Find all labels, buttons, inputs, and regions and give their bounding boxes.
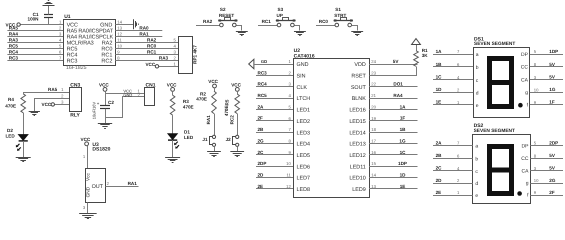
wire J2 to ground (237, 146, 239, 152)
svg-text:RA3: RA3 (159, 55, 169, 60)
svg-text:LED2: LED2 (297, 119, 311, 125)
wire net 1B to DS1 pin 6 (433, 66, 473, 68)
connector CN3 box (70, 88, 82, 112)
svg-text:RSET: RSET (351, 73, 366, 79)
svg-text:CLK: CLK (297, 85, 308, 91)
svg-text:RA1: RA1 (128, 181, 138, 186)
wire net 2F at DS2 pin 9 (530, 195, 563, 197)
svg-text:SOUT: SOUT (351, 85, 367, 91)
svg-text:GND: GND (86, 186, 91, 197)
svg-text:GD: GD (261, 59, 267, 64)
wire CN1 pin2 GND (106, 97, 145, 118)
svg-text:17: 17 (371, 139, 376, 144)
wire net 1C to DS1 pin 4 (433, 79, 473, 81)
svg-text:2A: 2A (436, 141, 443, 146)
display DS1 SEVEN SEGMENT box (474, 48, 530, 118)
svg-text:1A: 1A (436, 49, 443, 54)
wire VCC to U3 pin 1 (87, 146, 89, 169)
svg-text:g: g (525, 90, 528, 96)
svg-text:12: 12 (286, 184, 291, 189)
svg-text:2G: 2G (258, 138, 265, 143)
wire net 1B at U2 pin 18 (369, 132, 418, 134)
wire VCC to RP1 pin 1 (159, 66, 179, 68)
svg-text:LED11: LED11 (350, 164, 366, 170)
wire net RC0 to RP1 pin 4 (115, 48, 179, 50)
svg-text:C2: C2 (108, 100, 114, 105)
wire S2 to ground (237, 26, 242, 31)
svg-text:2A: 2A (258, 104, 265, 109)
wire net RC1 to switch S3 (258, 25, 277, 27)
resistor R4 (21, 94, 26, 113)
wire net 1A at U2 pin 20 (369, 109, 418, 111)
svg-text:LED6: LED6 (297, 164, 311, 170)
svg-text:UP: UP (277, 13, 283, 18)
temperature sensor U3 box (86, 169, 106, 203)
svg-text:CC: CC (521, 156, 529, 162)
DS1 decimal point (518, 103, 523, 108)
svg-text:LED: LED (184, 135, 194, 140)
wire net 2DP at DS2 pin 5 (530, 145, 563, 147)
U2 pin function labels (297, 62, 367, 193)
svg-text:1D: 1D (400, 173, 407, 178)
svg-text:OUT: OUT (92, 184, 104, 190)
svg-text:2D: 2D (436, 178, 443, 183)
wire net 5V at DS2 pin 3 (530, 170, 563, 172)
svg-text:15: 15 (371, 161, 376, 166)
wire net 2B to DS2 pin 6 (433, 158, 473, 160)
ground at J2 (230, 152, 244, 157)
svg-text:13: 13 (117, 25, 122, 30)
resistor R5 (237, 91, 239, 94)
svg-text:RC0: RC0 (319, 19, 329, 24)
wire net 5V at U2 pin 24 (369, 64, 418, 66)
wire R3 to D1 (172, 115, 174, 134)
svg-text:11: 11 (117, 37, 122, 42)
svg-text:SIN: SIN (297, 73, 306, 79)
svg-text:RA5: RA5 (48, 87, 58, 92)
svg-text:CA: CA (521, 77, 529, 83)
svg-text:STRT: STRT (334, 13, 346, 18)
svg-text:14: 14 (371, 173, 376, 178)
wire C2 to ground (105, 109, 107, 124)
resistor R1 (414, 51, 419, 67)
wire net DO1 at U2 pin 22 (369, 86, 418, 88)
svg-text:RA4: RA4 (393, 93, 403, 98)
svg-text:10uF/16V: 10uF/16V (92, 102, 97, 120)
capacitor C1 (48, 18, 50, 25)
svg-text:d: d (475, 181, 478, 187)
wire J1 to ground (214, 146, 216, 152)
svg-text:2F: 2F (258, 116, 264, 121)
svg-text:R3: R3 (183, 99, 189, 104)
wire net RA0 (115, 30, 162, 32)
svg-text:CN3: CN3 (70, 82, 80, 88)
svg-text:LED1: LED1 (297, 108, 311, 114)
svg-text:DP: DP (522, 143, 530, 149)
ground at S2 (236, 32, 248, 36)
wire VCC to U1 pin 1 (20, 24, 63, 26)
wire net RC0 to switch S1 (316, 25, 335, 27)
svg-text:CN1: CN1 (146, 83, 156, 89)
wire net 1E at U2 pin 13 (369, 188, 418, 190)
svg-text:470E: 470E (224, 105, 229, 116)
wire GD to U2 pin 1 (254, 64, 293, 66)
svg-text:LED13: LED13 (349, 142, 365, 148)
svg-text:RP1 4K7: RP1 4K7 (193, 45, 198, 64)
wire net RA1 (115, 36, 162, 38)
switch S3 (277, 23, 281, 27)
resistor pack RP1 4K7 box (179, 37, 193, 74)
svg-text:LED8: LED8 (297, 187, 311, 193)
svg-text:14: 14 (117, 19, 122, 24)
svg-text:GND: GND (123, 92, 132, 97)
wire net 1F at U2 pin 19 (369, 120, 418, 122)
svg-text:1B: 1B (436, 62, 443, 67)
svg-text:RC5: RC5 (9, 43, 19, 48)
wire net RA3 to RP1 pin 2 (115, 60, 179, 62)
DS2 decimal point (517, 191, 522, 196)
wire net 2C to DS2 pin 4 (433, 170, 473, 172)
wire net 2DP to U2 pin 10 (256, 166, 293, 168)
svg-text:a: a (475, 144, 478, 150)
svg-text:1DP: 1DP (549, 49, 558, 54)
DS2 digit figure 8 (487, 144, 514, 196)
svg-text:D1: D1 (184, 129, 190, 134)
switch S2 (220, 23, 224, 27)
ground at CN3 pin2 (29, 112, 40, 116)
svg-text:S2: S2 (220, 7, 226, 12)
svg-text:RA1: RA1 (206, 115, 211, 125)
svg-text:VCC: VCC (99, 83, 109, 88)
switch S1 (335, 23, 339, 27)
LED D1 (168, 134, 177, 140)
wire net 5V at DS1 pin 3 (530, 79, 563, 81)
wire net 2D to U2 pin 11 (256, 177, 293, 179)
svg-text:SEVEN SEGMENT: SEVEN SEGMENT (474, 128, 515, 134)
U1 pin numbers (59, 19, 123, 60)
wire net 5V at DS1 pin 8 (530, 66, 563, 68)
svg-text:1DP: 1DP (398, 161, 407, 166)
svg-text:R4: R4 (8, 97, 14, 102)
svg-text:5V: 5V (549, 153, 556, 158)
svg-text:3K: 3K (422, 53, 429, 58)
svg-text:SEVEN SEGMENT: SEVEN SEGMENT (474, 41, 515, 47)
svg-text:a: a (476, 52, 479, 58)
svg-text:J2: J2 (226, 137, 232, 142)
svg-text:VCC: VCC (167, 83, 177, 88)
wire net RC3 to U2 pin 2 (256, 75, 293, 77)
svg-text:2B: 2B (258, 127, 265, 132)
wire VCC to C2 and CN1 (105, 91, 107, 105)
svg-text:5V: 5V (393, 59, 400, 64)
display DS2 SEVEN SEGMENT box (473, 135, 531, 204)
wire U2 pin23 RSET to R1 (370, 67, 417, 76)
connector CN1 box (145, 88, 155, 106)
wire net RA2 to switch S2 (196, 25, 220, 27)
wire net RC4 to U2 pin 3 (256, 86, 293, 88)
wire net 1G at U2 pin 17 (369, 143, 418, 145)
svg-text:2DP: 2DP (258, 161, 267, 166)
LED D2 (19, 135, 28, 141)
svg-text:GND: GND (297, 62, 309, 68)
svg-text:DP: DP (521, 52, 529, 58)
svg-text:RC2: RC2 (229, 115, 234, 125)
svg-text:1E: 1E (436, 100, 442, 105)
svg-text:VDD: VDD (354, 62, 365, 68)
svg-text:LED3: LED3 (297, 130, 311, 136)
svg-text:2G: 2G (549, 178, 556, 183)
wire net 2F to U2 pin 6 (256, 120, 293, 122)
wire R4 to D2 (23, 113, 25, 135)
svg-text:CA: CA (522, 169, 530, 175)
wire net 2G to U2 pin 8 (256, 143, 293, 145)
svg-text:2E: 2E (436, 190, 442, 195)
svg-text:VCC: VCC (208, 79, 218, 84)
svg-text:10: 10 (534, 87, 539, 92)
svg-text:R5: R5 (225, 99, 230, 105)
svg-text:DO1: DO1 (393, 82, 403, 87)
svg-text:Vcc: Vcc (86, 173, 91, 181)
svg-text:S3: S3 (278, 7, 284, 12)
svg-text:LED15: LED15 (349, 119, 365, 125)
ground at U1 pin14 (134, 19, 139, 29)
U1 pin function labels (67, 22, 114, 64)
wire net 2B to U2 pin 7 (256, 132, 293, 134)
wire net RC4 to U1 pin 6 (7, 54, 63, 56)
svg-text:+: + (97, 101, 100, 106)
node GD arrow (249, 59, 254, 68)
svg-text:1C: 1C (436, 75, 443, 80)
svg-text:VCC: VCC (42, 102, 52, 107)
ground at S3 (294, 32, 306, 36)
svg-text:RA2: RA2 (203, 19, 213, 24)
svg-text:RC4: RC4 (9, 49, 19, 54)
op-amp U1 microcontroller 16F1825 box (64, 20, 116, 66)
svg-text:b: b (475, 156, 478, 162)
svg-text:DS1820: DS1820 (92, 147, 110, 153)
svg-text:12: 12 (117, 31, 122, 36)
svg-text:470E: 470E (196, 97, 207, 102)
svg-text:1C: 1C (400, 150, 407, 155)
svg-text:J1: J1 (202, 137, 208, 142)
svg-text:BLNK: BLNK (352, 96, 366, 102)
wire net 2C to U2 pin 9 (256, 154, 293, 156)
svg-text:VCC: VCC (81, 137, 91, 142)
svg-text:e: e (476, 103, 479, 109)
svg-text:D2: D2 (7, 128, 13, 133)
svg-text:2DP: 2DP (549, 141, 558, 146)
wire net RA5 to U1 pin 2 (7, 30, 63, 32)
svg-text:RA5: RA5 (9, 25, 19, 30)
wire net RC5 to U2 pin 4 (256, 98, 293, 100)
wire net RA4 at U2 pin 21 (369, 98, 418, 100)
svg-text:RA4: RA4 (9, 31, 19, 36)
svg-text:RC5: RC5 (258, 93, 268, 98)
svg-text:11: 11 (286, 173, 291, 178)
wire net 1DP at DS1 pin 5 (530, 54, 563, 56)
ground above C1 (inverted) (43, 1, 55, 6)
svg-text:2D: 2D (258, 173, 265, 178)
svg-text:RC1: RC1 (262, 19, 272, 24)
wire net 2A to U2 pin 5 (256, 109, 293, 111)
svg-text:2B: 2B (436, 153, 443, 158)
svg-text:24: 24 (371, 59, 376, 64)
wire net RC1 to RP1 pin 3 (115, 54, 179, 56)
wire net 1A to DS1 pin 7 (433, 54, 473, 56)
svg-text:RA0: RA0 (139, 25, 149, 30)
svg-text:g: g (526, 181, 529, 187)
wire net 2G at DS2 pin 10 (530, 183, 563, 185)
svg-text:18: 18 (371, 127, 376, 132)
svg-text:RA2: RA2 (147, 37, 157, 42)
wire VCC to CN3 pin3 (55, 104, 70, 106)
svg-text:1G: 1G (549, 87, 556, 92)
U2 pin numbers (286, 59, 377, 189)
wire U3 pin 2 net RA1 (105, 186, 138, 188)
svg-text:RA3: RA3 (9, 37, 19, 42)
svg-text:RESET: RESET (219, 13, 235, 18)
svg-text:2F: 2F (549, 190, 555, 195)
wire net RA2 to RP1 pin 5 (115, 42, 179, 44)
svg-text:RLY: RLY (70, 112, 80, 118)
svg-text:b: b (476, 65, 479, 71)
svg-text:10: 10 (534, 178, 539, 183)
wire net 1G at DS1 pin 10 (530, 92, 563, 94)
wire net RA4 to U1 pin 3 (7, 36, 63, 38)
wire net 1D at U2 pin 14 (369, 177, 418, 179)
svg-text:S1: S1 (335, 7, 341, 12)
svg-text:5V: 5V (549, 166, 556, 171)
wire net 2E to DS2 pin 1 (433, 195, 473, 197)
wire net 1DP at U2 pin 15 (369, 166, 418, 168)
ground at S1 (351, 32, 363, 36)
ground at J1 (207, 152, 221, 157)
wire net RA5 CN3 pin1 (23, 92, 69, 94)
svg-text:LED12: LED12 (349, 153, 365, 159)
wire net 5V at DS2 pin 8 (530, 158, 563, 160)
wire net RC5 to U1 pin 5 (7, 48, 63, 50)
svg-text:VCC: VCC (145, 62, 155, 67)
svg-text:1D: 1D (436, 87, 443, 92)
svg-text:LED10: LED10 (349, 176, 365, 182)
svg-text:CAT4016: CAT4016 (294, 53, 315, 59)
svg-text:20: 20 (371, 104, 376, 109)
ground at C2 (98, 124, 112, 129)
svg-text:RC3: RC3 (67, 59, 78, 65)
svg-text:RC4: RC4 (258, 82, 268, 87)
svg-text:LED9: LED9 (352, 187, 366, 193)
svg-text:RC2: RC2 (101, 59, 112, 65)
svg-text:5V: 5V (549, 75, 556, 80)
svg-text:10: 10 (286, 161, 291, 166)
svg-text:470E: 470E (183, 104, 194, 109)
wire R2 to J1 net RA1 (214, 114, 216, 136)
wire R5 to J2 net RC2 (237, 114, 239, 136)
IC U2 CAT4016 box (294, 59, 370, 198)
svg-text:LED: LED (6, 134, 16, 139)
wire U3 pin 3 to ground (87, 203, 89, 214)
wire net 2E to U2 pin 12 (256, 188, 293, 190)
wire net 1D to DS1 pin 2 (433, 92, 473, 94)
svg-text:LED4: LED4 (297, 142, 311, 148)
power arrow above R1 (412, 39, 421, 45)
wire net 1C at U2 pin 16 (369, 154, 418, 156)
svg-text:CC: CC (521, 65, 529, 71)
svg-text:470E: 470E (5, 103, 16, 108)
svg-text:2E: 2E (258, 184, 264, 189)
svg-text:d: d (476, 90, 479, 96)
wire net RA3 to U1 pin 4 (7, 42, 63, 44)
DS1 digit figure 8 (487, 56, 514, 109)
capacitor C2 (100, 105, 110, 107)
svg-text:RA1: RA1 (139, 31, 149, 36)
svg-text:22: 22 (371, 82, 376, 87)
svg-text:16F1825: 16F1825 (66, 65, 87, 71)
ground at D1 (165, 158, 180, 163)
wire net 2D to DS2 pin 2 (433, 183, 473, 185)
jumper J1 (212, 135, 215, 138)
svg-text:1F: 1F (400, 116, 406, 121)
wire R1 to arrow (416, 45, 418, 51)
svg-text:5V: 5V (549, 62, 556, 67)
svg-text:10: 10 (117, 43, 122, 48)
svg-text:LED5: LED5 (297, 153, 311, 159)
jumper J2 (236, 135, 239, 138)
svg-text:100N: 100N (28, 17, 40, 22)
wire net 1F at DS1 pin 9 (530, 104, 563, 106)
svg-text:1B: 1B (400, 127, 407, 132)
svg-text:2C: 2C (436, 166, 443, 171)
wire S3 to ground (295, 26, 300, 31)
svg-text:U1: U1 (64, 14, 71, 20)
wire CN3 pin2 to ground (35, 99, 70, 112)
wire U1 pin14 GND (115, 24, 134, 26)
wire net 1E to DS1 pin 1 (433, 104, 473, 106)
wire D2 to ground (23, 141, 25, 157)
svg-text:1G: 1G (399, 138, 406, 143)
svg-text:1E: 1E (400, 184, 406, 189)
wire S1 to ground (352, 26, 358, 31)
svg-text:1A: 1A (400, 104, 407, 109)
svg-text:LED14: LED14 (349, 130, 365, 136)
ground at D2 (16, 158, 31, 162)
wire net RC3 to U1 pin 7 (7, 60, 63, 62)
svg-text:RC1: RC1 (147, 49, 157, 54)
resistor R2 (214, 88, 216, 91)
svg-text:e: e (475, 193, 478, 199)
svg-text:2C: 2C (258, 150, 265, 155)
svg-text:LTCH: LTCH (297, 96, 311, 102)
svg-text:LED16: LED16 (349, 108, 365, 114)
svg-text:RC3: RC3 (9, 55, 19, 60)
svg-text:RC3: RC3 (258, 70, 268, 75)
wire D1 to ground (172, 140, 174, 158)
svg-text:LED7: LED7 (297, 176, 311, 182)
svg-text:1F: 1F (549, 100, 555, 105)
ground at U3 (79, 214, 97, 219)
svg-text:RC0: RC0 (147, 43, 157, 48)
svg-text:21: 21 (371, 93, 376, 98)
wire net 2A to DS2 pin 7 (433, 145, 473, 147)
svg-text:VCC: VCC (231, 83, 241, 88)
svg-text:23: 23 (371, 70, 376, 75)
resistor R3 (172, 91, 174, 95)
